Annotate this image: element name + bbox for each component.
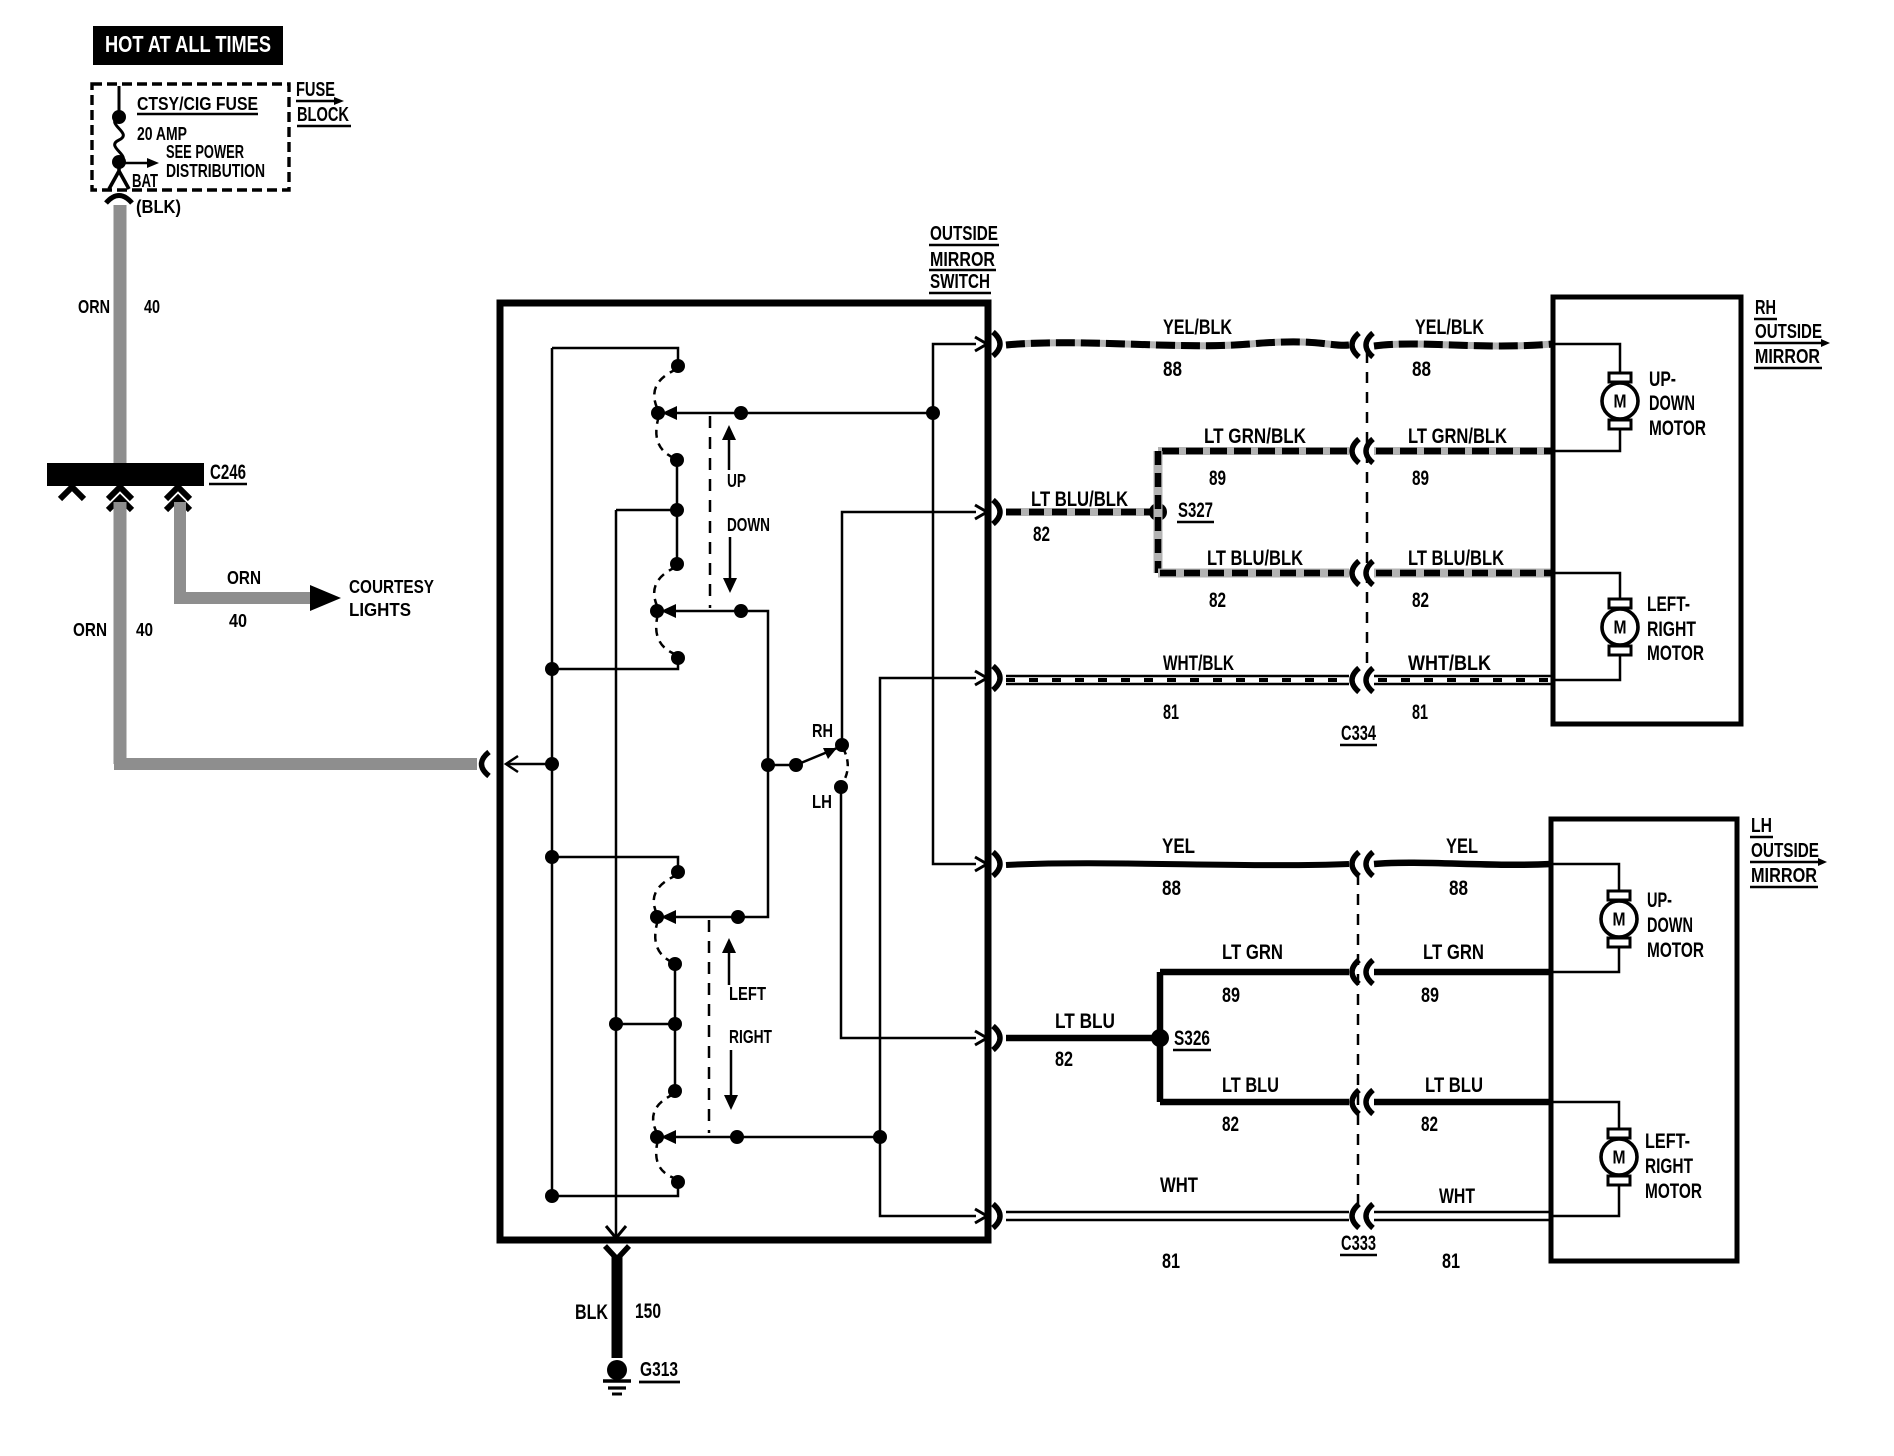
svg-text:88: 88 (1412, 358, 1431, 381)
node DOWN contact (650, 604, 664, 618)
wire YEL/BLK to up-down motor (1553, 344, 1620, 374)
node RH (812, 721, 849, 752)
svg-text:YEL/BLK: YEL/BLK (1415, 316, 1484, 339)
C334 chevrons row WHT/BLK (1352, 668, 1373, 692)
svg-text:DOWN: DOWN (1647, 914, 1693, 937)
node bus junction lower (545, 850, 559, 864)
svg-text:DOWN: DOWN (727, 515, 770, 535)
LEFT arrow (722, 938, 766, 1004)
svg-text:LEFT-: LEFT- (1647, 593, 1690, 616)
label UP-DOWN MOTOR (1647, 889, 1704, 962)
selector pivot node (768, 758, 803, 772)
svg-text:81: 81 (1442, 1250, 1460, 1273)
svg-text:DISTRIBUTION: DISTRIBUTION (166, 161, 265, 181)
left/right rocker dashed arc mid-top (655, 920, 674, 963)
svg-text:S326: S326 (1174, 1027, 1210, 1050)
svg-text:89: 89 (1222, 984, 1240, 1007)
svg-text:WHT: WHT (1160, 1174, 1198, 1197)
output arrows at right edge (975, 337, 987, 1223)
feed wire into bus (506, 756, 559, 772)
wire WHT to left-right motor (1551, 1184, 1619, 1216)
svg-text:88: 88 (1163, 358, 1182, 381)
svg-text:81: 81 (1412, 701, 1428, 724)
svg-text:89: 89 (1421, 984, 1439, 1007)
wire WHT/BLK 81 C334 to RH mirror (1374, 676, 1553, 684)
node UP contact (651, 406, 665, 420)
label CTSY/CIG FUSE (137, 94, 258, 114)
hot at all times banner (93, 26, 283, 65)
svg-text:81: 81 (1163, 701, 1179, 724)
svg-text:RH: RH (1755, 297, 1776, 319)
svg-text:82: 82 (1412, 589, 1429, 612)
svg-text:YEL: YEL (1446, 835, 1478, 858)
wire LT GRN/BLK 89 S327 to C334 (1158, 447, 1349, 455)
RH outside mirror box (1553, 297, 1741, 724)
splice S326 (1151, 1027, 1211, 1050)
node lower arc top (671, 865, 685, 879)
label LT BLU/BLK 82 right (1408, 547, 1504, 612)
svg-text:88: 88 (1449, 877, 1468, 900)
label WHT 81 left (1160, 1174, 1198, 1273)
svg-text:LT GRN/BLK: LT GRN/BLK (1204, 425, 1306, 448)
label LT BLU 82 (1055, 1010, 1115, 1071)
svg-text:82: 82 (1055, 1048, 1073, 1071)
svg-text:LT GRN: LT GRN (1423, 941, 1484, 964)
node upper arc bottom (671, 651, 685, 665)
RH/LH selector common node (761, 758, 775, 772)
junction dot (112, 155, 126, 169)
wire LT GRN/BLK to up-down motor (1553, 428, 1620, 451)
dashed mechanical link left/right (708, 920, 711, 1133)
up/down rocker dashed arc mid-top (656, 416, 676, 459)
svg-text:DOWN: DOWN (1649, 392, 1695, 415)
label BLK 150 (575, 1300, 661, 1324)
splice S327 (1149, 499, 1214, 522)
svg-text:LEFT-: LEFT- (1645, 1130, 1690, 1153)
label LT GRN/BLK 89 right (1408, 425, 1507, 490)
wire BLK 150 to ground (612, 1257, 623, 1358)
junction dot (112, 110, 126, 124)
label LT BLU/BLK 82 (1031, 488, 1128, 546)
label WHT/BLK 81 left (1163, 652, 1234, 724)
svg-text:RIGHT: RIGHT (729, 1027, 772, 1047)
svg-text:LT GRN: LT GRN (1222, 941, 1283, 964)
svg-text:88: 88 (1162, 877, 1181, 900)
label UP-DOWN MOTOR (1649, 368, 1706, 440)
label YEL 88 left (1162, 835, 1195, 900)
svg-text:CTSY/CIG FUSE: CTSY/CIG FUSE (137, 94, 258, 114)
label LT BLU/BLK 82 left (1207, 547, 1303, 612)
svg-text:RIGHT: RIGHT (1645, 1155, 1693, 1178)
node upper arc top (671, 359, 685, 373)
label FUSE BLOCK (296, 79, 351, 126)
svg-text:C246: C246 (210, 461, 246, 484)
svg-text:LT GRN/BLK: LT GRN/BLK (1408, 425, 1507, 448)
up/down rocker dashed arc bottom (656, 614, 677, 655)
label LT BLU 82 left (1222, 1074, 1279, 1136)
C333 chevrons row LT GRN (1352, 960, 1373, 984)
RIGHT arrow (724, 1027, 772, 1110)
wire LH selector to LT BLU output (841, 787, 976, 1038)
svg-text:150: 150 (635, 1300, 661, 1323)
svg-text:LT BLU: LT BLU (1055, 1010, 1115, 1033)
selector dashed throw arc (842, 748, 848, 784)
label SEE POWER DISTRIBUTION (166, 142, 265, 181)
svg-text:82: 82 (1421, 1113, 1438, 1136)
svg-text:82: 82 (1033, 523, 1050, 546)
svg-text:LT BLU/BLK: LT BLU/BLK (1031, 488, 1128, 511)
node UP row riser (926, 406, 940, 420)
node mid terminals of up/down rocker (670, 453, 684, 571)
wire DOWN contact row (657, 604, 768, 765)
node LEFT contact (650, 910, 664, 924)
svg-text:(BLK): (BLK) (136, 197, 181, 217)
svg-text:SWITCH: SWITCH (930, 271, 990, 293)
wire arc bottom return to bus (552, 658, 678, 669)
node RIGHT row junction (873, 1130, 887, 1144)
wire: top jumper to upper contact (552, 348, 678, 366)
wire YEL 88 C333 to LH mirror (1374, 863, 1551, 865)
wire WHT/BLK 81 switch to C334 (1006, 676, 1349, 684)
label C333 (1340, 1232, 1377, 1255)
node mid terminals of left/right rocker (668, 957, 682, 1098)
C334 chevrons row LT GRN/BLK (1352, 439, 1373, 463)
wire ORN 40 from fuse to C246 (114, 205, 127, 463)
connector C334 dashed boundary (1366, 352, 1369, 672)
wire mid terminal to ground bus (609, 1017, 675, 1031)
label LT GRN 89 right (1421, 941, 1484, 1007)
wire jumper to left/right rocker top (552, 857, 678, 872)
svg-text:LEFT: LEFT (729, 984, 766, 1004)
up/down rocker dashed arc top (654, 369, 677, 410)
svg-text:BAT: BAT (132, 171, 158, 191)
wire LT BLU 82 switch to S326 (1006, 1035, 1154, 1042)
svg-text:S327: S327 (1178, 499, 1213, 522)
label YEL 88 right (1446, 835, 1478, 900)
node RIGHT contact (650, 1130, 664, 1144)
svg-text:MOTOR: MOTOR (1645, 1180, 1702, 1203)
svg-text:82: 82 (1222, 1113, 1239, 1136)
label LT BLU 82 right (1421, 1074, 1483, 1136)
svg-text:WHT: WHT (1439, 1185, 1475, 1208)
C333 chevrons row WHT (1352, 1204, 1373, 1228)
label G313 (639, 1359, 680, 1382)
DOWN arrow (723, 515, 770, 593)
switch box outline (500, 303, 988, 1240)
motor M LH left-right (1601, 1129, 1637, 1185)
wire YEL/BLK 88 C334 to RH mirror (1374, 344, 1553, 346)
wire LT BLU/BLK 82 switch to S327 (1006, 508, 1154, 516)
svg-text:YEL: YEL (1162, 835, 1195, 858)
node LH (812, 780, 848, 812)
node bus junction (545, 662, 559, 676)
connector chevron below switch (605, 1246, 629, 1259)
C246 pin chevron 1 (60, 487, 84, 499)
wire RIGHT contact row (657, 1130, 880, 1144)
svg-text:BLK: BLK (575, 1301, 608, 1324)
wire WHT 81 switch to C333 (1006, 1212, 1349, 1220)
selector blade to RH (796, 746, 842, 765)
svg-text:ORN: ORN (73, 620, 107, 640)
svg-text:MIRROR: MIRROR (1755, 346, 1820, 368)
svg-text:UP: UP (727, 471, 746, 491)
svg-text:89: 89 (1412, 467, 1429, 490)
label RH OUTSIDE MIRROR (1754, 297, 1830, 368)
wire ORN 40 from C246 to switch (114, 502, 477, 764)
feed connector chevron at switch (482, 752, 490, 776)
wire LT GRN to up-down motor (1551, 946, 1619, 972)
svg-text:RH: RH (812, 721, 833, 741)
svg-text:COURTESY: COURTESY (349, 577, 434, 597)
wire arc bottom return to bus (552, 1182, 678, 1196)
C333 chevrons row LT BLU (1352, 1090, 1373, 1114)
svg-text:LH: LH (812, 792, 832, 812)
svg-text:LT BLU/BLK: LT BLU/BLK (1408, 547, 1504, 570)
svg-text:20 AMP: 20 AMP (137, 124, 187, 144)
C333 chevrons row YEL (1352, 852, 1373, 876)
output connector chevrons (993, 332, 1000, 1228)
wire WHT/BLK to left-right motor (1553, 654, 1620, 680)
wire LT BLU 82 C333 to LH mirror (1374, 1099, 1551, 1106)
label LEFT-RIGHT MOTOR (1647, 593, 1704, 665)
dashed mechanical link up/down (709, 416, 712, 608)
wire YEL to up-down motor (1551, 864, 1619, 892)
wire LT BLU/BLK to left-right motor (1553, 573, 1620, 600)
svg-text:WHT/BLK: WHT/BLK (1408, 652, 1491, 675)
label COURTESY LIGHTS (349, 577, 434, 620)
C334 chevrons row LT BLU/BLK (1352, 561, 1373, 585)
svg-text:RIGHT: RIGHT (1647, 618, 1696, 641)
label LEFT-RIGHT MOTOR (1645, 1130, 1702, 1203)
motor M RH left-right (1602, 599, 1638, 655)
svg-text:MOTOR: MOTOR (1649, 417, 1706, 440)
motor M RH up-down (1602, 373, 1638, 429)
ground G313 (603, 1360, 631, 1394)
wire WHT 81 C333 to LH mirror (1374, 1212, 1551, 1220)
svg-text:UP-: UP- (1649, 368, 1676, 391)
svg-text:40: 40 (144, 297, 160, 317)
wire LT BLU/BLK 82 S327 to C334 (1158, 569, 1349, 578)
label WHT 81 right (1439, 1185, 1475, 1273)
svg-text:89: 89 (1209, 467, 1226, 490)
label C246 (209, 461, 247, 484)
wire YEL/BLK 88 switch to C334 (1006, 342, 1349, 346)
svg-text:81: 81 (1162, 1250, 1180, 1273)
svg-text:OUTSIDE: OUTSIDE (1751, 840, 1819, 862)
svg-text:40: 40 (229, 611, 247, 631)
label ORN 40 (78, 297, 160, 317)
wire LT BLU/BLK 82 C334 to RH mirror (1374, 569, 1553, 578)
label LT GRN/BLK 89 left (1204, 425, 1306, 490)
wire ORN 40 branch to courtesy lights (174, 502, 341, 611)
svg-text:BLOCK: BLOCK (297, 104, 349, 126)
wire LT GRN/BLK 89 C334 to RH mirror (1374, 447, 1553, 455)
wire UP row to YEL output (933, 413, 976, 864)
wire LEFT contact row (657, 765, 768, 924)
label OUTSIDE MIRROR SWITCH (929, 223, 999, 293)
wire S327 riser (1154, 451, 1163, 573)
connector C333 dashed boundary (1357, 874, 1360, 1206)
ground exit arrow at bottom edge (606, 1226, 626, 1238)
svg-text:ORN: ORN (78, 297, 110, 317)
svg-text:LH: LH (1751, 815, 1772, 837)
connector C246 body (47, 463, 204, 486)
svg-text:YEL/BLK: YEL/BLK (1163, 316, 1232, 339)
UP arrow (722, 425, 746, 491)
label LT GRN 89 left (1222, 941, 1283, 1007)
wire into fuse (118, 86, 121, 117)
svg-text:MOTOR: MOTOR (1647, 642, 1704, 665)
wire RIGHT row to WHT/BLK output (880, 678, 976, 1137)
wire UP row to YEL/BLK output (933, 344, 976, 413)
svg-text:WHT/BLK: WHT/BLK (1163, 652, 1234, 675)
wire UP contact row (658, 406, 933, 420)
label YEL/BLK 88 right (1412, 316, 1484, 381)
svg-text:MOTOR: MOTOR (1647, 939, 1704, 962)
svg-text:FUSE: FUSE (296, 79, 335, 101)
svg-text:G313: G313 (640, 1359, 678, 1381)
wire RIGHT row to WHT output (880, 1137, 976, 1216)
svg-text:HOT AT ALL TIMES: HOT AT ALL TIMES (105, 31, 271, 57)
label LH OUTSIDE MIRROR (1750, 815, 1827, 887)
svg-text:ORN: ORN (227, 568, 261, 588)
C334 chevrons row YEL/BLK (1352, 333, 1373, 357)
svg-text:LT BLU: LT BLU (1222, 1074, 1279, 1097)
svg-text:C334: C334 (1341, 722, 1376, 745)
svg-text:MIRROR: MIRROR (1751, 865, 1817, 887)
see power distribution arrow (122, 158, 159, 168)
wire LT BLU 82 S326 to C333 (1160, 1099, 1349, 1106)
LH outside mirror box (1551, 819, 1737, 1261)
wire ground bus vertical (615, 510, 618, 1237)
label ORN 40 (227, 568, 261, 631)
wire LT GRN 89 C333 to LH mirror (1374, 969, 1551, 976)
node bus junction bottom (545, 1189, 559, 1203)
svg-text:40: 40 (136, 620, 153, 640)
wire RH selector to LT BLU/BLK output (842, 512, 976, 745)
svg-text:LIGHTS: LIGHTS (349, 600, 411, 620)
up/down rocker dashed arc mid-bottom (654, 567, 676, 608)
svg-text:OUTSIDE: OUTSIDE (930, 223, 998, 245)
C246 pin chevron 3 (166, 487, 190, 510)
svg-text:SEE POWER: SEE POWER (166, 142, 244, 162)
wire S326 riser (1157, 972, 1164, 1102)
BAT terminal (109, 163, 129, 189)
motor M LH up-down (1601, 891, 1637, 947)
connector chevron at fuse block (106, 196, 132, 204)
svg-text:MIRROR: MIRROR (930, 249, 995, 271)
wire LT BLU to left-right motor (1551, 1102, 1619, 1130)
wire: bus from feed to contacts (551, 348, 554, 1196)
fuse block dashed box (92, 84, 289, 190)
wire mid terminal to ground bus (616, 509, 677, 512)
svg-text:82: 82 (1209, 589, 1226, 612)
left/right rocker dashed arc top (654, 875, 677, 914)
C246 pin chevron 2 (108, 487, 132, 510)
svg-text:OUTSIDE: OUTSIDE (1755, 321, 1822, 343)
label YEL/BLK 88 left (1163, 316, 1232, 381)
wire YEL 88 switch to C333 (1006, 863, 1349, 865)
svg-text:C333: C333 (1341, 1232, 1376, 1255)
wire LT GRN 89 S326 to C333 (1160, 969, 1349, 976)
label WHT/BLK 81 right (1408, 652, 1491, 724)
left/right rocker dashed arc bottom (656, 1140, 677, 1179)
svg-text:UP-: UP- (1647, 889, 1672, 912)
svg-text:LT BLU/BLK: LT BLU/BLK (1207, 547, 1303, 570)
svg-text:LT BLU: LT BLU (1425, 1074, 1483, 1097)
label C334 (1340, 722, 1377, 745)
left/right rocker dashed arc mid-bottom (653, 1094, 674, 1133)
label ORN 40 (73, 620, 153, 640)
node lower arc bottom (671, 1175, 685, 1189)
fuse CTSY/CIG 20A element (115, 117, 124, 163)
